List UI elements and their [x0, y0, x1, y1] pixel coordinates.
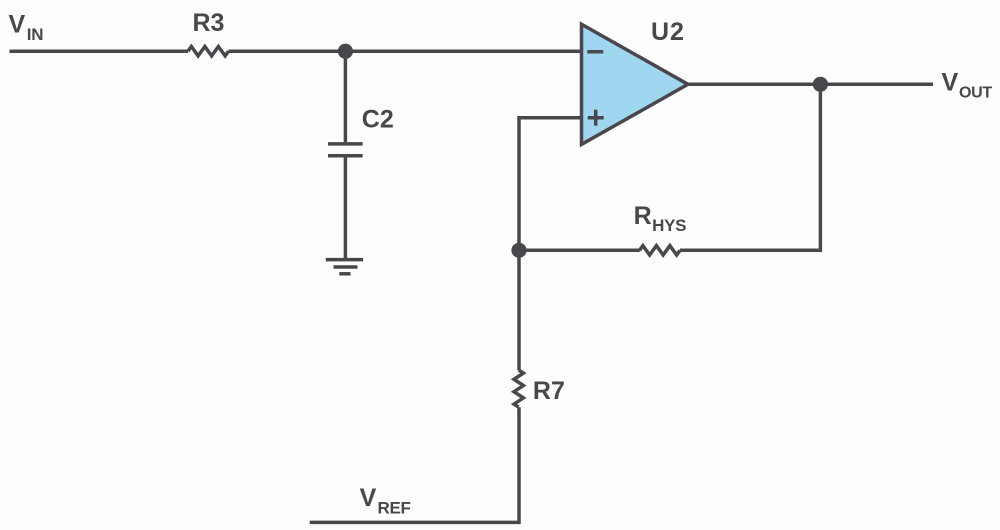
node B junction dot: [511, 243, 526, 258]
node A junction dot: [338, 44, 353, 59]
wire: node B down to R7: [517, 250, 521, 370]
resistor R7: [514, 370, 523, 407]
svg-text:R7: R7: [533, 377, 565, 405]
svg-text:U2: U2: [651, 18, 685, 46]
svg-text:IN: IN: [27, 25, 43, 44]
svg-text:HYS: HYS: [652, 216, 686, 235]
wire: C2 bottom plate to ground: [344, 157, 348, 259]
label V_IN: [9, 10, 44, 44]
svg-text:R3: R3: [193, 9, 225, 37]
ground: [326, 260, 363, 274]
svg-text:V: V: [9, 10, 26, 38]
capacitor C2: [328, 144, 363, 156]
svg-text:V: V: [942, 69, 959, 97]
wire: R3 to op-amp inverting input (through node A): [229, 49, 582, 53]
label V_OUT: [942, 69, 993, 102]
svg-text:REF: REF: [378, 499, 411, 518]
resistor R_HYS: [640, 246, 681, 255]
svg-text:OUT: OUT: [959, 84, 992, 101]
wire: node A down to C2 top plate: [344, 51, 348, 142]
wire: node B to R_HYS: [519, 249, 640, 253]
wire: op-amp output to V_OUT: [688, 83, 933, 87]
wire: op-amp noninverting input to node B: [519, 118, 582, 251]
op-amp U2 minus pin symbol: [587, 50, 603, 54]
op-amp U2: [582, 24, 689, 144]
resistor R3: [188, 47, 229, 56]
svg-text:V: V: [360, 484, 377, 512]
label R_HYS: [634, 202, 687, 235]
op-amp U2 plus pin symbol: [588, 110, 604, 126]
wire: R_HYS up to output node C: [680, 84, 820, 250]
wire: V_IN input lead: [10, 49, 189, 53]
node C junction dot: [813, 77, 828, 92]
label V_REF: [360, 484, 411, 518]
svg-text:C2: C2: [362, 105, 394, 133]
wire: R7 to V_REF rail: [310, 407, 519, 522]
svg-text:R: R: [634, 202, 652, 230]
